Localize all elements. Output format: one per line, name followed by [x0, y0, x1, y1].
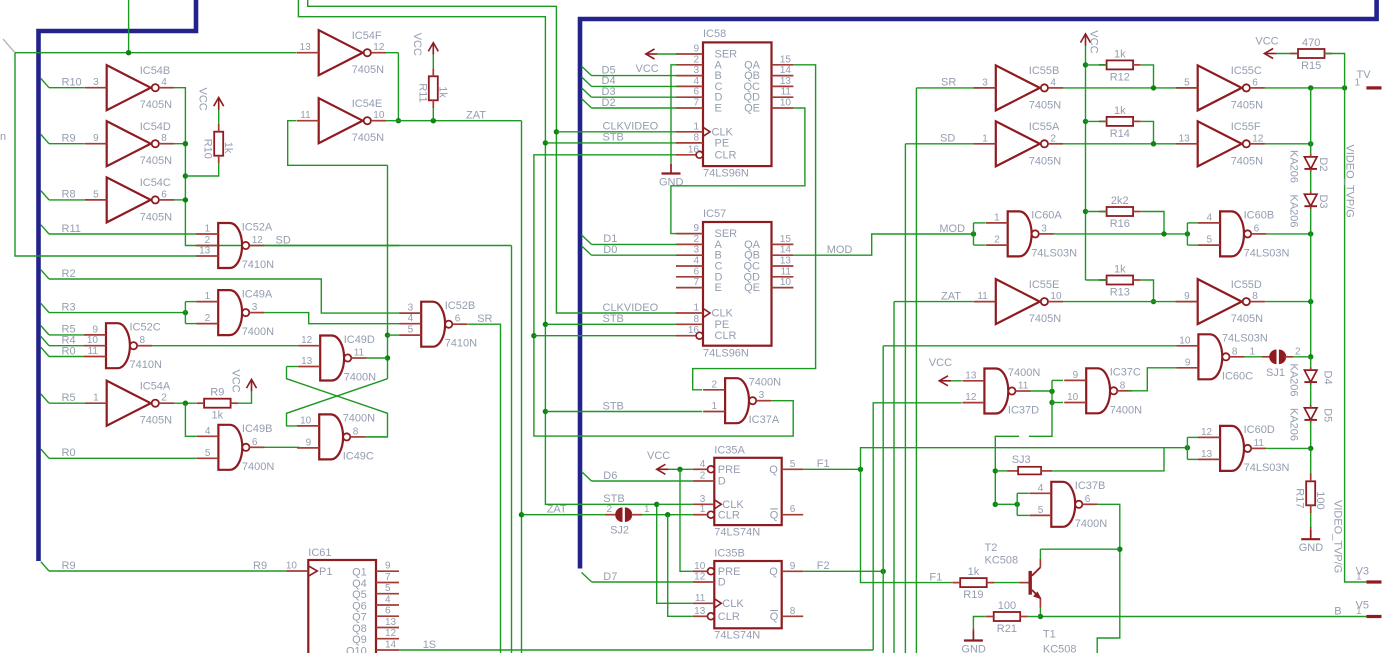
svg-text:7: 7 [693, 277, 699, 288]
svg-text:7: 7 [693, 98, 699, 109]
svg-text:7405N: 7405N [140, 415, 172, 427]
svg-text:R5: R5 [62, 392, 76, 404]
svg-text:KC508: KC508 [1043, 644, 1077, 653]
svg-text:F2: F2 [817, 560, 830, 572]
svg-text:IC61: IC61 [308, 547, 331, 559]
svg-text:2: 2 [693, 234, 699, 245]
svg-text:12: 12 [385, 628, 397, 639]
svg-text:1: 1 [1354, 77, 1360, 88]
svg-text:13: 13 [385, 617, 397, 628]
svg-text:R10: R10 [202, 139, 214, 159]
svg-text:Q10: Q10 [346, 645, 367, 653]
svg-text:6: 6 [161, 189, 167, 200]
svg-text:3: 3 [982, 77, 988, 88]
svg-text:7405N: 7405N [1231, 313, 1263, 325]
svg-text:14: 14 [780, 245, 792, 256]
svg-text:10: 10 [1067, 392, 1079, 403]
svg-text:IC37B: IC37B [1075, 480, 1106, 492]
svg-text:7400N: 7400N [344, 372, 376, 384]
svg-text:D: D [718, 476, 726, 488]
svg-text:7405N: 7405N [352, 64, 384, 76]
svg-text:ZAT: ZAT [466, 110, 486, 122]
svg-text:7: 7 [385, 572, 391, 583]
svg-text:7405N: 7405N [1029, 155, 1061, 167]
svg-text:R14: R14 [1110, 128, 1130, 140]
svg-text:R9: R9 [210, 387, 224, 399]
svg-text:R21: R21 [997, 623, 1017, 635]
svg-text:10: 10 [694, 561, 706, 572]
svg-text:IC49A: IC49A [242, 288, 273, 300]
svg-text:IC54B: IC54B [140, 65, 171, 77]
svg-text:14: 14 [780, 65, 792, 76]
svg-text:1S: 1S [423, 639, 436, 651]
svg-text:3: 3 [93, 77, 99, 88]
svg-text:2: 2 [700, 471, 706, 482]
svg-text:Q: Q [769, 566, 778, 578]
svg-text:1k: 1k [1114, 105, 1126, 117]
svg-text:STB: STB [603, 132, 624, 144]
svg-text:4: 4 [205, 426, 211, 437]
svg-text:1: 1 [1356, 606, 1362, 617]
svg-text:3: 3 [759, 390, 765, 401]
svg-text:VIDEO_TVP/G: VIDEO_TVP/G [1344, 145, 1356, 218]
svg-text:6: 6 [455, 314, 461, 325]
svg-text:11: 11 [354, 348, 365, 359]
svg-text:SD: SD [940, 133, 955, 145]
svg-text:11: 11 [781, 87, 792, 98]
svg-text:R3: R3 [62, 301, 76, 313]
svg-text:IC35B: IC35B [714, 548, 745, 560]
svg-text:VCC: VCC [1087, 30, 1099, 53]
svg-text:5: 5 [93, 189, 99, 200]
svg-text:6: 6 [1254, 223, 1260, 234]
svg-text:STB: STB [603, 313, 624, 325]
svg-text:5: 5 [1038, 505, 1044, 516]
svg-text:6: 6 [1252, 77, 1258, 88]
svg-text:1: 1 [712, 401, 718, 412]
svg-text:100: 100 [998, 600, 1016, 612]
svg-text:B: B [1334, 605, 1341, 617]
svg-text:7405N: 7405N [1029, 99, 1061, 111]
svg-text:8: 8 [693, 314, 699, 325]
svg-text:10: 10 [780, 277, 792, 288]
svg-text:7400N: 7400N [1110, 404, 1142, 416]
svg-text:8: 8 [161, 133, 167, 144]
svg-text:3: 3 [693, 245, 699, 256]
svg-text:MOD: MOD [939, 223, 965, 235]
svg-text:1: 1 [205, 291, 211, 302]
svg-text:15: 15 [780, 54, 792, 65]
svg-text:R13: R13 [1110, 287, 1130, 299]
svg-text:PE: PE [715, 319, 730, 331]
svg-text:D: D [718, 577, 726, 589]
svg-text:P1: P1 [319, 566, 332, 578]
svg-text:1k: 1k [968, 566, 980, 578]
svg-text:IC55D: IC55D [1231, 279, 1262, 291]
svg-text:74LS03N: 74LS03N [1222, 333, 1268, 345]
svg-text:8: 8 [140, 335, 146, 346]
svg-text:11: 11 [1254, 438, 1265, 449]
svg-text:IC54F: IC54F [352, 30, 382, 42]
svg-text:1: 1 [693, 121, 699, 132]
svg-text:SJ3: SJ3 [1012, 454, 1031, 466]
svg-text:VCC: VCC [411, 33, 423, 56]
svg-text:R11: R11 [62, 223, 81, 235]
svg-text:STB: STB [603, 400, 624, 412]
svg-text:11: 11 [695, 593, 706, 604]
svg-text:SJ1: SJ1 [1266, 367, 1285, 379]
svg-text:MOD: MOD [827, 244, 853, 256]
svg-text:CLK: CLK [722, 598, 744, 610]
svg-text:7400N: 7400N [242, 326, 274, 338]
svg-text:11: 11 [88, 346, 99, 357]
svg-text:2: 2 [205, 313, 211, 324]
svg-text:2k2: 2k2 [1111, 195, 1129, 207]
svg-text:11: 11 [781, 266, 792, 277]
svg-text:VCC: VCC [1255, 36, 1278, 48]
svg-text:74LS03N: 74LS03N [1031, 247, 1077, 259]
svg-text:1k: 1k [222, 142, 234, 154]
svg-text:R10: R10 [62, 77, 82, 89]
svg-text:470: 470 [1302, 37, 1320, 49]
svg-text:T2: T2 [985, 542, 998, 554]
svg-text:4: 4 [385, 595, 391, 606]
svg-text:1: 1 [644, 504, 650, 515]
svg-text:n: n [0, 131, 6, 143]
svg-text:D0: D0 [603, 244, 617, 256]
svg-text:5: 5 [205, 448, 211, 459]
svg-text:IC55F: IC55F [1231, 121, 1261, 133]
svg-text:12: 12 [1201, 427, 1213, 438]
svg-text:CLR: CLR [718, 611, 740, 623]
svg-text:PE: PE [715, 137, 730, 149]
svg-text:7400N: 7400N [1075, 518, 1107, 530]
svg-text:10: 10 [780, 98, 792, 109]
svg-text:R12: R12 [1110, 71, 1130, 83]
svg-text:Q4: Q4 [352, 578, 367, 590]
svg-text:74LS96N: 74LS96N [703, 347, 749, 359]
svg-text:CLK: CLK [712, 308, 734, 320]
svg-text:6: 6 [693, 266, 699, 277]
svg-text:8: 8 [790, 606, 796, 617]
svg-text:IC37D: IC37D [1008, 405, 1039, 417]
svg-text:6: 6 [693, 87, 699, 98]
svg-text:5: 5 [1207, 235, 1213, 246]
svg-text:Q8: Q8 [352, 623, 367, 635]
svg-text:7400N: 7400N [242, 461, 274, 473]
svg-text:7410N: 7410N [242, 259, 274, 271]
svg-text:SR: SR [941, 77, 956, 89]
svg-text:74LS96N: 74LS96N [703, 168, 749, 180]
svg-text:Q6: Q6 [352, 600, 367, 612]
svg-text:8: 8 [693, 132, 699, 143]
svg-text:3: 3 [693, 65, 699, 76]
svg-text:F1: F1 [817, 458, 830, 470]
svg-text:Q9: Q9 [352, 634, 367, 646]
svg-text:8: 8 [1252, 291, 1258, 302]
svg-text:1: 1 [982, 133, 988, 144]
svg-text:D4: D4 [1322, 371, 1334, 385]
svg-text:7405N: 7405N [352, 132, 384, 144]
svg-text:D6: D6 [603, 470, 617, 482]
svg-text:IC55C: IC55C [1231, 65, 1262, 77]
svg-text:2: 2 [205, 235, 211, 246]
svg-text:13: 13 [1201, 449, 1213, 460]
svg-text:1k: 1k [1114, 48, 1126, 60]
svg-text:9: 9 [693, 223, 699, 234]
svg-text:KA206: KA206 [1288, 408, 1300, 441]
svg-text:10: 10 [300, 415, 312, 426]
svg-text:E: E [715, 103, 722, 115]
svg-text:7400N: 7400N [749, 377, 781, 389]
svg-text:1k: 1k [437, 86, 449, 98]
svg-text:2: 2 [1295, 346, 1301, 357]
svg-text:4: 4 [408, 313, 414, 324]
svg-text:R19: R19 [963, 589, 983, 601]
svg-text:4: 4 [693, 256, 699, 267]
svg-text:ZAT: ZAT [941, 290, 961, 302]
svg-text:D3: D3 [1317, 195, 1329, 209]
svg-text:E: E [715, 282, 722, 294]
svg-text:IC57: IC57 [703, 208, 726, 220]
svg-text:4: 4 [161, 77, 167, 88]
svg-text:7405N: 7405N [140, 155, 172, 167]
svg-text:8: 8 [1232, 346, 1238, 357]
svg-text:CLKVIDEO: CLKVIDEO [603, 302, 659, 314]
svg-text:7405N: 7405N [1029, 313, 1061, 325]
svg-text:9: 9 [385, 561, 391, 572]
svg-text:10: 10 [373, 110, 385, 121]
svg-text:SJ2: SJ2 [610, 525, 629, 537]
svg-text:2: 2 [161, 393, 167, 404]
svg-text:13: 13 [301, 356, 313, 367]
svg-text:9: 9 [306, 437, 312, 448]
svg-text:6: 6 [252, 437, 258, 448]
svg-text:1: 1 [994, 212, 1000, 223]
svg-text:8: 8 [353, 426, 359, 437]
svg-text:6: 6 [385, 606, 391, 617]
svg-text:2: 2 [606, 504, 612, 515]
svg-text:IC55A: IC55A [1029, 121, 1060, 133]
svg-text:IC49D: IC49D [344, 334, 375, 346]
svg-text:2: 2 [994, 235, 1000, 246]
svg-text:15: 15 [780, 234, 792, 245]
svg-text:D2: D2 [602, 97, 616, 109]
svg-text:IC54E: IC54E [352, 98, 383, 110]
svg-text:11: 11 [977, 291, 988, 302]
svg-text:PRE: PRE [718, 464, 741, 476]
svg-text:IC52B: IC52B [445, 300, 476, 312]
svg-text:7405N: 7405N [1231, 99, 1263, 111]
svg-text:CLR: CLR [715, 149, 737, 161]
svg-text:IC60D: IC60D [1244, 424, 1275, 436]
svg-text:VCC: VCC [647, 450, 670, 462]
svg-text:R2: R2 [62, 268, 76, 280]
svg-text:D7: D7 [603, 571, 617, 583]
svg-text:VCC: VCC [197, 88, 209, 111]
svg-text:6: 6 [790, 504, 796, 515]
svg-text:VCC: VCC [229, 369, 241, 392]
svg-text:13: 13 [694, 606, 706, 617]
svg-text:7410N: 7410N [445, 338, 477, 350]
svg-text:2: 2 [693, 54, 699, 65]
svg-text:1: 1 [205, 224, 211, 235]
svg-text:D2: D2 [1317, 157, 1329, 171]
svg-text:Q5: Q5 [352, 589, 367, 601]
svg-text:D5: D5 [1322, 408, 1334, 422]
svg-text:IC52C: IC52C [130, 322, 161, 334]
svg-text:13: 13 [965, 370, 977, 381]
svg-text:1k: 1k [1114, 264, 1126, 276]
svg-text:12: 12 [301, 335, 313, 346]
svg-text:IC54D: IC54D [140, 121, 171, 133]
svg-text:16: 16 [688, 325, 700, 336]
svg-text:IC37C: IC37C [1110, 367, 1141, 379]
svg-text:IC49B: IC49B [242, 423, 273, 435]
svg-text:2: 2 [712, 379, 718, 390]
svg-text:4: 4 [1207, 212, 1213, 223]
svg-text:IC55B: IC55B [1029, 65, 1060, 77]
svg-text:R0: R0 [62, 345, 76, 357]
svg-text:1: 1 [1249, 346, 1255, 357]
svg-text:IC60A: IC60A [1031, 210, 1062, 222]
svg-text:KC508: KC508 [985, 555, 1019, 567]
svg-text:13: 13 [199, 246, 211, 257]
svg-text:1: 1 [93, 393, 99, 404]
svg-text:IC54C: IC54C [140, 177, 171, 189]
svg-text:IC55E: IC55E [1029, 279, 1060, 291]
svg-text:R16: R16 [1110, 218, 1130, 230]
svg-text:3: 3 [252, 302, 258, 313]
svg-text:6: 6 [1085, 494, 1091, 505]
svg-text:VIDEO_TVP/G: VIDEO_TVP/G [1332, 500, 1344, 573]
svg-text:13: 13 [300, 42, 312, 53]
svg-text:SR: SR [477, 313, 492, 325]
svg-text:QE: QE [744, 103, 760, 115]
svg-text:IC58: IC58 [703, 28, 726, 40]
svg-text:5: 5 [1184, 77, 1190, 88]
svg-text:10: 10 [1050, 291, 1062, 302]
svg-text:7400N: 7400N [1008, 367, 1040, 379]
svg-text:CLR: CLR [718, 509, 740, 521]
svg-text:R9: R9 [62, 560, 76, 572]
svg-text:R9: R9 [62, 133, 76, 145]
svg-text:IC37A: IC37A [749, 414, 780, 426]
svg-text:7405N: 7405N [1231, 155, 1263, 167]
svg-text:13: 13 [780, 256, 792, 267]
svg-text:R11: R11 [416, 83, 428, 102]
svg-text:9: 9 [92, 324, 98, 335]
svg-text:1: 1 [1356, 572, 1362, 583]
svg-text:4: 4 [1038, 483, 1044, 494]
svg-text:74LS74N: 74LS74N [714, 630, 760, 642]
svg-text:8: 8 [1120, 380, 1126, 391]
svg-text:Q: Q [769, 464, 778, 476]
svg-text:VCC: VCC [636, 63, 659, 75]
svg-text:R17: R17 [1294, 488, 1306, 508]
svg-text:12: 12 [373, 42, 385, 53]
svg-text:Q7: Q7 [352, 612, 367, 624]
svg-text:IC54A: IC54A [140, 380, 171, 392]
svg-text:9: 9 [790, 561, 796, 572]
svg-text:4: 4 [693, 76, 699, 87]
svg-text:5: 5 [790, 459, 796, 470]
svg-text:1: 1 [700, 504, 706, 515]
svg-text:16: 16 [688, 144, 700, 155]
svg-text:Q: Q [770, 611, 779, 623]
svg-text:SD: SD [276, 234, 291, 246]
svg-text:7405N: 7405N [140, 99, 172, 111]
svg-text:CLR: CLR [715, 330, 737, 342]
svg-text:1k: 1k [211, 410, 223, 422]
svg-text:3: 3 [700, 494, 706, 505]
svg-text:9: 9 [93, 133, 99, 144]
svg-text:2: 2 [1050, 133, 1056, 144]
svg-text:74LS03N: 74LS03N [1244, 247, 1290, 259]
svg-text:4: 4 [1050, 77, 1056, 88]
svg-text:100: 100 [1314, 491, 1326, 509]
svg-text:Q: Q [770, 509, 779, 521]
svg-text:IC35A: IC35A [714, 444, 745, 456]
svg-text:13: 13 [780, 76, 792, 87]
svg-text:12: 12 [965, 392, 977, 403]
svg-text:T1: T1 [1043, 629, 1056, 641]
svg-text:R8: R8 [62, 189, 76, 201]
svg-text:R9: R9 [253, 560, 267, 572]
svg-text:1: 1 [693, 303, 699, 314]
svg-text:ZAT: ZAT [547, 504, 567, 516]
svg-text:KA206: KA206 [1288, 150, 1300, 183]
svg-text:7410N: 7410N [130, 359, 162, 371]
svg-text:IC52A: IC52A [242, 221, 273, 233]
svg-text:3: 3 [1041, 223, 1047, 234]
svg-text:74LS74N: 74LS74N [714, 526, 760, 538]
svg-text:IC60B: IC60B [1244, 210, 1275, 222]
svg-text:KA206: KA206 [1288, 364, 1300, 397]
svg-text:4: 4 [700, 459, 706, 470]
svg-text:74LS03N: 74LS03N [1244, 462, 1290, 474]
svg-text:IC49C: IC49C [343, 450, 374, 462]
svg-text:VCC: VCC [929, 357, 952, 369]
svg-text:10: 10 [286, 561, 298, 572]
svg-text:5: 5 [408, 325, 414, 336]
svg-text:GND: GND [1299, 542, 1324, 554]
svg-text:14: 14 [385, 640, 397, 651]
svg-text:11: 11 [1018, 381, 1029, 392]
svg-text:9: 9 [1073, 370, 1079, 381]
svg-text:Q1: Q1 [352, 567, 367, 579]
svg-text:QE: QE [744, 282, 760, 294]
svg-text:7400N: 7400N [343, 413, 375, 425]
svg-text:10: 10 [1179, 335, 1191, 346]
svg-text:3: 3 [408, 303, 414, 314]
svg-text:R15: R15 [1301, 60, 1321, 72]
svg-text:F1: F1 [929, 571, 942, 583]
svg-text:9: 9 [1185, 357, 1191, 368]
svg-text:7405N: 7405N [140, 211, 172, 223]
svg-text:12: 12 [252, 235, 264, 246]
svg-text:9: 9 [693, 44, 699, 55]
svg-text:12: 12 [694, 572, 706, 583]
svg-text:10: 10 [87, 335, 99, 346]
svg-text:13: 13 [1179, 133, 1191, 144]
svg-text:GND: GND [961, 644, 986, 653]
svg-text:11: 11 [300, 110, 311, 121]
svg-text:KA206: KA206 [1288, 195, 1300, 228]
svg-text:9: 9 [1184, 291, 1190, 302]
svg-text:12: 12 [1252, 133, 1264, 144]
svg-text:R0: R0 [62, 447, 76, 459]
